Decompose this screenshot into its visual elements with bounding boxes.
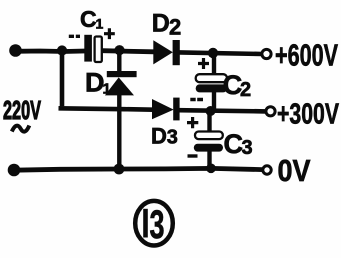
svg-text:220V: 220V: [3, 95, 41, 125]
wire top rail D2 to +600V terminal: [180, 52, 263, 54]
svg-text:C: C: [224, 129, 244, 159]
svg-text:0V: 0V: [278, 153, 311, 188]
svg-text:2: 2: [169, 15, 181, 40]
svg-text:3: 3: [167, 126, 178, 148]
node junction bottom right: [206, 164, 216, 174]
wire C3 stubs: [207, 111, 211, 133]
node junction top right: [208, 48, 218, 58]
AC tilde symbol: [12, 126, 30, 132]
capacitor C1: [84, 35, 101, 62]
wire 0V rail: [14, 168, 263, 170]
svg-text:D: D: [151, 123, 167, 148]
wire middle rail D3 to +300V terminal: [179, 110, 267, 111]
wire vertical from node A down: [60, 51, 65, 106]
terminal 0V: [263, 166, 271, 174]
svg-text:3: 3: [242, 137, 253, 159]
wire middle rail left: [59, 108, 154, 109]
terminal +300V: [266, 107, 275, 116]
node D1 anode / 0V junction: [114, 164, 125, 175]
diode D1 (cathode up): [105, 50, 137, 169]
svg-text:1: 1: [103, 81, 111, 98]
polarity minus C3: [188, 154, 198, 157]
capacitor C3: [194, 132, 223, 152]
polarity plus C3: [187, 117, 198, 128]
svg-text:+600V: +600V: [275, 38, 338, 72]
node input bottom terminal: [8, 164, 21, 177]
figure number circle 13: [135, 201, 173, 246]
diode D3: [152, 98, 180, 121]
wire top rail left: [14, 49, 85, 54]
wire C2 stubs: [212, 53, 216, 75]
svg-text:C: C: [80, 6, 97, 32]
terminal +600V: [262, 49, 271, 58]
svg-text:2: 2: [240, 79, 251, 101]
polarity minus C2: [190, 98, 203, 101]
svg-text:3: 3: [150, 203, 165, 247]
wire top rail C1 to D2: [103, 51, 155, 52]
diode D2: [153, 40, 180, 65]
svg-text:D: D: [152, 9, 170, 37]
node junction middle right: [206, 106, 216, 116]
node input top terminal: [9, 44, 22, 57]
capacitor C2: [196, 74, 227, 92]
polarity plus C1: [104, 28, 115, 39]
polarity plus C2: [198, 58, 209, 69]
svg-text:+300V: +300V: [277, 98, 339, 130]
node X junction after C1: [114, 45, 124, 55]
node A junction: [57, 45, 67, 55]
svg-text:1: 1: [96, 16, 104, 32]
polarity minus C1: [69, 35, 80, 38]
